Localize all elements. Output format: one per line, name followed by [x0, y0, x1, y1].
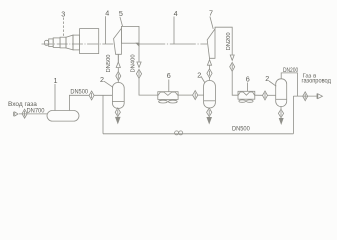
- svg-text:DN500: DN500: [70, 88, 88, 95]
- wire inlet DN700 line: [19, 113, 47, 115]
- valve V8 outlet: [303, 92, 308, 101]
- wire DN500 header to 2a: [94, 94, 112, 96]
- engine section c: [60, 37, 66, 48]
- svg-text:3: 3: [61, 9, 65, 18]
- outlet flow marker: [317, 94, 322, 99]
- node 6b leader: [246, 83, 248, 92]
- wire compressor 7 discharge top: [215, 27, 232, 55]
- valve 2a top: [116, 72, 121, 81]
- wire discharge 1 to cooler: [139, 78, 158, 95]
- scrubber 2c: [276, 79, 287, 107]
- cooler 6a box: [158, 92, 178, 100]
- cooler 6b box: [238, 91, 255, 99]
- valve V2 DN500: [89, 91, 94, 100]
- compressor 5 trapezoid: [114, 28, 122, 54]
- compressor 5 casing: [121, 26, 139, 43]
- svg-text:6: 6: [246, 75, 250, 84]
- svg-text:газопровод: газопровод: [302, 78, 332, 85]
- svg-text:1: 1: [54, 76, 58, 85]
- svg-text:DN200: DN200: [283, 68, 299, 74]
- cooler 6a coil: [158, 92, 178, 95]
- node 2c leader: [269, 81, 276, 86]
- compressor 7 trapezoid: [207, 29, 215, 58]
- drain 2b arrow: [207, 117, 211, 123]
- node 2a leader: [104, 81, 113, 87]
- wire valve to 2c: [268, 94, 276, 96]
- drain 2c valve: [278, 107, 283, 118]
- wire riser S1 to DN500 header: [69, 95, 89, 110]
- scrubber 2a: [112, 83, 124, 109]
- valve V1 inlet: [22, 109, 27, 118]
- valve discharge 2: [230, 62, 235, 71]
- rotated label DN400 discharge: [138, 43, 140, 62]
- wire cooler 6b to valve: [255, 94, 263, 96]
- valve 2b top: [207, 69, 212, 78]
- svg-text:2: 2: [197, 71, 201, 80]
- node 5 leader: [120, 17, 123, 27]
- wire discharge 2 to cooler 6b: [232, 71, 238, 95]
- centerline shaft: [42, 43, 114, 45]
- node 4b leader: [173, 17, 175, 45]
- valve manifold bypass: [175, 131, 179, 135]
- flow arrow down d2: [230, 55, 234, 60]
- drain 2a arrow: [116, 117, 120, 123]
- svg-text:6: 6: [167, 71, 171, 80]
- svg-text:5: 5: [119, 9, 123, 18]
- compressor 5 discharge nozzle: [136, 43, 139, 46]
- drain 2a valve: [115, 108, 120, 117]
- inlet flow marker: [14, 112, 18, 116]
- drain 2c arrow: [279, 118, 283, 123]
- svg-text:DN400: DN400: [131, 54, 137, 72]
- svg-text:2: 2: [265, 74, 269, 83]
- flow arrow up 2a: [116, 55, 120, 83]
- svg-text:DN200: DN200: [226, 32, 232, 50]
- engine cone: [66, 35, 73, 50]
- svg-text:DN500: DN500: [106, 54, 112, 72]
- turbine engine 3 nose: [44, 40, 48, 45]
- flow arrow down d1: [137, 62, 141, 67]
- cooler 6a fans: [159, 100, 168, 103]
- svg-text:DN500: DN500: [232, 126, 250, 133]
- svg-text:4: 4: [174, 9, 178, 18]
- valve V5: [193, 91, 198, 100]
- wire branch to manifold: [102, 95, 104, 134]
- svg-text:2: 2: [100, 75, 104, 84]
- engine exhaust box: [80, 29, 99, 54]
- wire bypass riser: [292, 96, 294, 134]
- node 3 dashed leader: [63, 18, 65, 38]
- node 2b leader: [201, 76, 205, 83]
- engine section a: [49, 39, 54, 47]
- svg-text:DN700: DN700: [27, 108, 45, 115]
- node 6a leader: [168, 80, 170, 92]
- valve discharge 1: [136, 69, 141, 78]
- cooler 6b fans: [239, 100, 246, 102]
- wire 2c riser DN700: [281, 73, 297, 96]
- svg-text:4: 4: [105, 9, 109, 18]
- engine section d: [73, 35, 80, 50]
- wire outlet header: [293, 95, 316, 97]
- flow arrow up 2b: [207, 58, 211, 80]
- scrubber 2b: [204, 81, 216, 109]
- wire shaft coupling 4b: [139, 43, 207, 45]
- node 4a leader: [105, 16, 107, 44]
- engine section b: [53, 38, 60, 48]
- node 1 leader: [54, 84, 56, 111]
- valve V7: [263, 91, 268, 100]
- separator S1 vessel 1: [47, 111, 79, 122]
- wire valve to 2b: [198, 94, 204, 96]
- drain 2b valve: [207, 108, 212, 117]
- cooler 6b coil: [238, 92, 254, 95]
- wire manifold bottom: [103, 133, 293, 135]
- svg-text:7: 7: [209, 9, 213, 18]
- rotated label DN500 riser: [117, 54, 119, 62]
- wire cooler 6a to valve: [178, 94, 193, 96]
- node 7 leader: [210, 17, 213, 29]
